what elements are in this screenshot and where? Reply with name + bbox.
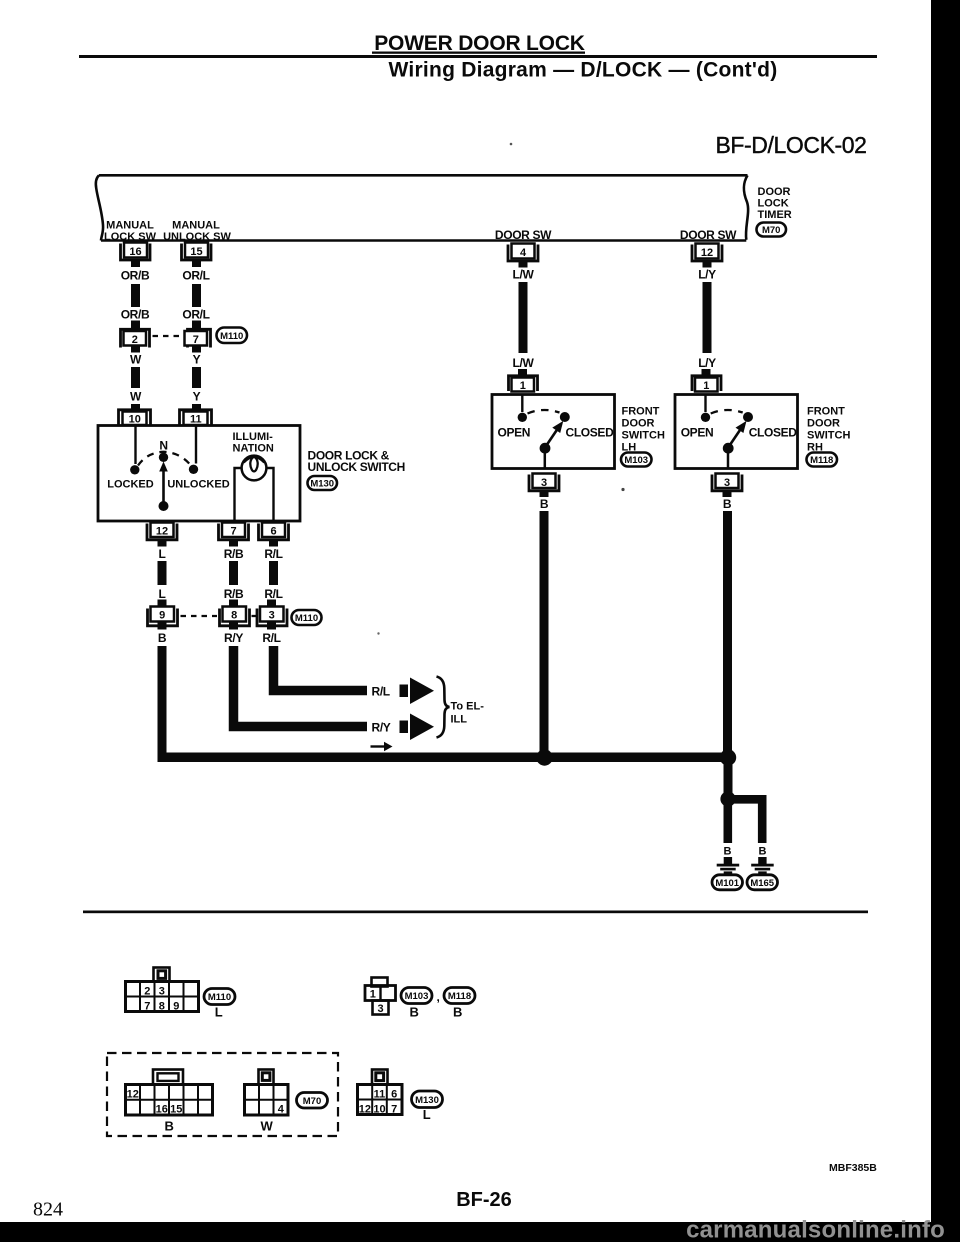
svg-text:CLOSED: CLOSED xyxy=(749,426,798,440)
wire common to pin3 LH xyxy=(544,452,547,468)
switch common node RH xyxy=(723,443,734,454)
connector 3 (M110) xyxy=(257,600,287,630)
connector tab 1 (LH switch) xyxy=(509,369,538,392)
connector face M103/M118 xyxy=(365,978,396,1015)
node locked contact xyxy=(130,465,139,474)
connector 7 (M110) xyxy=(185,321,211,353)
wire OR/B xyxy=(131,284,140,307)
svg-text:7: 7 xyxy=(391,1104,397,1116)
svg-text:3: 3 xyxy=(269,610,275,622)
node open contact RH xyxy=(701,413,710,422)
svg-text:1: 1 xyxy=(520,380,526,392)
connector tab 6 (below switch) xyxy=(259,523,289,547)
svg-text:L: L xyxy=(215,1005,223,1020)
svg-text:N: N xyxy=(159,439,167,453)
svg-text:OR/L: OR/L xyxy=(182,269,209,283)
svg-text:OPEN: OPEN xyxy=(498,426,531,440)
svg-text:DOOR: DOOR xyxy=(758,186,791,198)
svg-text:UNLOCKED: UNLOCKED xyxy=(167,479,229,491)
svg-text:M165: M165 xyxy=(750,878,774,889)
svg-text:BF-D/LOCK-02: BF-D/LOCK-02 xyxy=(715,132,866,158)
brace xyxy=(437,677,450,738)
connector oval M110 (face) xyxy=(204,989,235,1005)
connector oval M130 (face) xyxy=(412,1091,443,1108)
watermark bar xyxy=(0,1222,960,1242)
svg-text:DOOR: DOOR xyxy=(807,418,840,430)
svg-text:R/L: R/L xyxy=(262,631,280,645)
svg-text:4: 4 xyxy=(278,1104,285,1116)
svg-text:L/Y: L/Y xyxy=(698,356,716,370)
svg-text:R/L: R/L xyxy=(264,587,282,601)
svg-text:W: W xyxy=(130,353,142,367)
svg-text:M118: M118 xyxy=(448,991,471,1002)
svg-text:M118: M118 xyxy=(810,455,833,466)
junction node RH B / ground bus xyxy=(720,749,736,765)
wire B RH down xyxy=(723,511,732,753)
svg-text:9: 9 xyxy=(173,1001,179,1013)
svg-text:NATION: NATION xyxy=(233,443,274,455)
svg-text:OPEN: OPEN xyxy=(681,426,714,440)
svg-text:M70: M70 xyxy=(762,225,780,236)
svg-text:To EL-: To EL- xyxy=(451,701,485,713)
speck xyxy=(510,143,513,146)
svg-text:M70: M70 xyxy=(303,1096,321,1107)
svg-text:8: 8 xyxy=(231,610,237,622)
svg-text:LOCK: LOCK xyxy=(758,198,789,210)
footer rule xyxy=(83,911,868,914)
svg-text:TIMER: TIMER xyxy=(758,209,792,221)
connector face M110 grid xyxy=(126,968,199,1013)
svg-text:7: 7 xyxy=(144,1001,150,1013)
connector oval M101 xyxy=(712,875,743,890)
connector oval M110 xyxy=(217,328,248,344)
wire pin1 to open contact RH xyxy=(704,395,706,412)
svg-text:3: 3 xyxy=(541,477,547,489)
svg-text:Y: Y xyxy=(193,353,201,367)
svg-text:12: 12 xyxy=(701,247,713,259)
svg-text:M110: M110 xyxy=(220,331,243,342)
switch lever arrow xyxy=(162,470,165,503)
node N contact xyxy=(159,453,168,462)
connector tab 4 (door sw LH) xyxy=(508,244,538,268)
svg-text:MANUAL: MANUAL xyxy=(106,220,154,232)
svg-text:M130: M130 xyxy=(310,479,334,490)
wire B below bus xyxy=(724,762,733,794)
connector face M70-B grid xyxy=(126,1070,213,1116)
svg-text:ILL: ILL xyxy=(451,714,468,726)
junction node ground split xyxy=(720,791,735,806)
svg-text:M110: M110 xyxy=(295,613,318,624)
node unlocked contact xyxy=(189,465,198,474)
svg-text:M103: M103 xyxy=(405,991,429,1002)
svg-text:Y: Y xyxy=(193,390,201,404)
svg-text:R/L: R/L xyxy=(264,547,282,561)
svg-text:W: W xyxy=(130,390,142,404)
connector oval M118 xyxy=(807,453,838,467)
svg-text:10: 10 xyxy=(373,1104,385,1116)
svg-text:1: 1 xyxy=(370,989,376,1001)
node open contact LH xyxy=(518,413,527,422)
wire L xyxy=(158,561,167,585)
connector tab 7 (below switch) xyxy=(219,523,249,547)
connector oval M103 (face) xyxy=(401,988,432,1004)
svg-text:16: 16 xyxy=(156,1104,168,1116)
arrow to EL-ILL (R/Y) xyxy=(400,714,435,741)
connector tab 15 (manual unlock sw) xyxy=(182,243,212,268)
ground symbol M101 xyxy=(717,857,740,874)
svg-text:10: 10 xyxy=(129,414,141,426)
connector oval M70 xyxy=(757,223,787,237)
wire L/Y xyxy=(703,282,712,353)
svg-text:M130: M130 xyxy=(415,1095,439,1106)
connector tab 12 (below switch) xyxy=(147,523,177,547)
switch throw arc RH (dashed) xyxy=(711,410,743,414)
dashed link connector 9 to 8 xyxy=(181,615,218,617)
svg-text:824: 824 xyxy=(33,1199,63,1221)
svg-text:OR/B: OR/B xyxy=(121,308,150,322)
svg-text:6: 6 xyxy=(270,526,276,538)
svg-text:ILLUMI-: ILLUMI- xyxy=(233,431,274,443)
svg-text:SWITCH: SWITCH xyxy=(807,430,850,442)
svg-text:12: 12 xyxy=(127,1089,139,1101)
svg-text:B: B xyxy=(164,1119,173,1134)
svg-text:L/Y: L/Y xyxy=(698,268,716,282)
svg-text:LOCK SW: LOCK SW xyxy=(104,231,157,243)
svg-text:8: 8 xyxy=(159,1001,165,1013)
arrow to EL-ILL (R/L) xyxy=(400,678,435,705)
svg-text:R/Y: R/Y xyxy=(224,631,243,645)
connector tab 16 (manual lock sw) xyxy=(121,243,151,268)
svg-text:W: W xyxy=(261,1119,274,1134)
svg-text:UNLOCK SWITCH: UNLOCK SWITCH xyxy=(308,460,405,474)
svg-text:DOOR SW: DOOR SW xyxy=(680,228,737,242)
right scan edge band xyxy=(931,0,960,1242)
svg-text:M103: M103 xyxy=(624,455,648,466)
svg-text:LOCKED: LOCKED xyxy=(107,479,154,491)
svg-text:Wiring Diagram — D/LOCK — (Con: Wiring Diagram — D/LOCK — (Cont'd) xyxy=(389,59,778,82)
svg-text:15: 15 xyxy=(190,246,202,258)
svg-text:L: L xyxy=(159,547,166,561)
dashed group box M70 xyxy=(107,1053,338,1136)
wire pin10 to locked contact xyxy=(134,426,136,464)
svg-text:R/B: R/B xyxy=(224,547,244,561)
connector oval M103 xyxy=(621,453,652,467)
svg-text:B: B xyxy=(724,846,732,858)
wire Y xyxy=(192,367,201,388)
svg-text:2: 2 xyxy=(132,334,138,346)
bus top edge wire xyxy=(99,174,748,177)
title underline xyxy=(372,52,585,54)
svg-text:L: L xyxy=(423,1107,431,1122)
connector tab 10 (switch pin) xyxy=(119,404,151,426)
wire R/L elbow xyxy=(274,646,368,691)
svg-text:OR/B: OR/B xyxy=(121,269,150,283)
front door switch RH box xyxy=(675,395,798,469)
wire W xyxy=(131,367,140,388)
svg-text:L: L xyxy=(159,587,166,601)
svg-text:MBF385B: MBF385B xyxy=(829,1162,877,1174)
svg-text:3: 3 xyxy=(377,1003,383,1015)
svg-text:12: 12 xyxy=(359,1104,371,1116)
connector tab 3 (RH switch) xyxy=(712,474,742,498)
svg-text:M110: M110 xyxy=(208,992,231,1003)
connector oval M130 xyxy=(308,476,338,490)
bus: door lock timer harness outline xyxy=(96,175,748,240)
dashed link connector 2 to 7 xyxy=(153,335,185,337)
svg-text:L/W: L/W xyxy=(513,356,535,370)
connector tab 3 (LH switch) xyxy=(529,474,559,498)
connector 8 (M110) xyxy=(220,600,250,630)
svg-text:CLOSED: CLOSED xyxy=(566,426,615,440)
svg-text:carmanualsonline.info: carmanualsonline.info xyxy=(686,1217,945,1242)
connector oval M118 (face) xyxy=(444,988,475,1004)
svg-text:,: , xyxy=(437,990,440,1004)
door lock & unlock switch box M130 xyxy=(98,426,300,522)
svg-text:2: 2 xyxy=(144,986,150,998)
svg-text:1: 1 xyxy=(703,380,709,392)
wire to ground M101 xyxy=(724,804,733,843)
svg-text:B: B xyxy=(453,1005,462,1020)
wire OR/L xyxy=(192,284,201,307)
svg-text:DOOR: DOOR xyxy=(622,418,655,430)
svg-text:MANUAL: MANUAL xyxy=(172,220,220,232)
connector tab 1 (RH switch) xyxy=(692,369,721,392)
svg-text:11: 11 xyxy=(374,1089,386,1101)
svg-text:4: 4 xyxy=(520,247,527,259)
lamp lead right xyxy=(267,468,274,520)
wire R/B xyxy=(229,561,238,585)
ground symbol M165 xyxy=(751,857,774,874)
connector face M70-W grid xyxy=(245,1070,289,1116)
switch throw arc (dashed) xyxy=(138,452,191,466)
svg-text:B: B xyxy=(759,846,767,858)
wire pin11 to unlocked contact xyxy=(195,426,197,464)
ground bus wire xyxy=(158,753,734,763)
svg-text:M101: M101 xyxy=(715,878,739,889)
bus bottom edge wire xyxy=(101,239,746,242)
switch common node LH xyxy=(540,443,551,454)
wire L/W xyxy=(519,282,528,353)
wire B down to ground bus xyxy=(158,646,167,753)
connector 2 (M110) xyxy=(121,321,150,353)
bus left torn edge xyxy=(96,175,103,240)
svg-text:B: B xyxy=(540,497,549,511)
svg-text:R/Y: R/Y xyxy=(372,721,391,735)
svg-text:UNLOCK SW: UNLOCK SW xyxy=(163,231,231,243)
lamp lead left xyxy=(235,468,242,520)
node closed contact RH xyxy=(743,412,753,422)
svg-text:B: B xyxy=(723,497,732,511)
connector oval M110 xyxy=(292,610,322,625)
connector 9 (M110) xyxy=(148,600,178,630)
wire pin1 to open contact xyxy=(521,395,523,412)
svg-text:9: 9 xyxy=(159,610,165,622)
illumination lamp xyxy=(242,456,267,481)
bus right torn edge xyxy=(744,175,748,240)
svg-text:OR/L: OR/L xyxy=(182,308,209,322)
svg-text:R/B: R/B xyxy=(224,587,244,601)
node closed contact LH xyxy=(560,412,570,422)
svg-text:16: 16 xyxy=(129,246,141,258)
wire common to pin3 RH xyxy=(727,452,730,468)
wire B LH down xyxy=(540,511,549,753)
svg-text:15: 15 xyxy=(170,1104,182,1116)
svg-text:DOOR SW: DOOR SW xyxy=(495,228,552,242)
svg-text:7: 7 xyxy=(230,526,236,538)
svg-text:12: 12 xyxy=(156,526,168,538)
wire R/L xyxy=(269,561,278,585)
svg-text:3: 3 xyxy=(159,986,165,998)
switch throw arc LH (dashed) xyxy=(528,410,560,414)
connector oval M165 xyxy=(747,875,778,890)
svg-text:B: B xyxy=(158,631,167,645)
svg-text:BF-26: BF-26 xyxy=(456,1189,512,1211)
svg-text:11: 11 xyxy=(190,414,202,426)
wire R/Y elbow xyxy=(234,646,368,727)
svg-text:R/L: R/L xyxy=(372,685,390,699)
svg-text:6: 6 xyxy=(391,1089,397,1101)
flow arrow on ground bus xyxy=(371,745,386,747)
dashed link connector 8 to 3 xyxy=(252,615,259,617)
connector tab 11 (switch pin) xyxy=(180,404,212,426)
switch lever arrow LH xyxy=(546,429,558,446)
svg-text:FRONT: FRONT xyxy=(807,406,845,418)
header rule xyxy=(79,55,877,58)
front door switch LH box xyxy=(492,395,615,469)
connector oval M70 (face) xyxy=(297,1093,328,1109)
connector tab 12 (door sw RH) xyxy=(692,244,722,268)
switch lever arrow RH xyxy=(729,429,741,446)
svg-text:7: 7 xyxy=(193,334,199,346)
svg-text:FRONT: FRONT xyxy=(622,406,660,418)
connector face M130 grid xyxy=(358,1070,403,1116)
wire to ground M165 elbow xyxy=(730,799,762,843)
junction node LH B / ground bus xyxy=(536,749,552,765)
svg-text:B: B xyxy=(409,1005,418,1020)
svg-text:SWITCH: SWITCH xyxy=(622,430,665,442)
svg-text:L/W: L/W xyxy=(513,268,535,282)
switch common node xyxy=(159,501,169,511)
svg-text:3: 3 xyxy=(724,477,730,489)
